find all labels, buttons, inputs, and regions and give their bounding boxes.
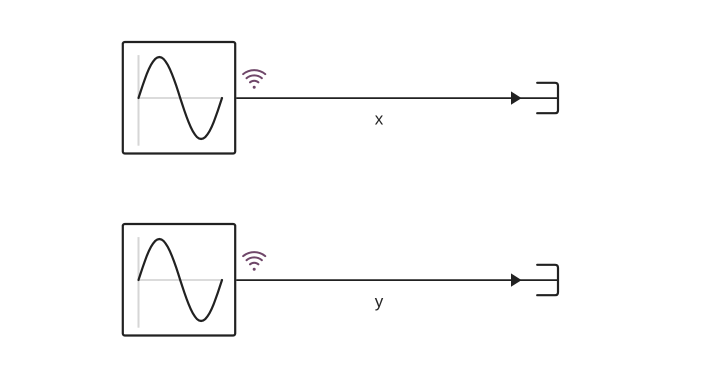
- svg-text:y: y: [375, 292, 384, 311]
- block 2 vertical axis: [138, 237, 140, 328]
- sine wave source block 1: [123, 42, 235, 154]
- out bus element 2 bracket: [537, 265, 558, 295]
- wire 2: [236, 279, 557, 281]
- block 1 horizontal axis: [139, 97, 223, 99]
- block 2 sine curve: [139, 239, 223, 321]
- block 1 sine curve: [139, 57, 223, 139]
- out bus element 1 bracket: [537, 83, 558, 113]
- wireless icon 1: [243, 70, 265, 89]
- wire 1 arrowhead: [511, 91, 522, 104]
- wire 1: [236, 97, 557, 99]
- svg-text:x: x: [375, 109, 384, 128]
- wire 2 arrowhead: [511, 273, 522, 286]
- block 1 vertical axis: [138, 55, 140, 146]
- block 2 horizontal axis: [139, 279, 223, 281]
- sine wave source block 2: [123, 224, 235, 336]
- wireless icon 2: [243, 252, 265, 271]
